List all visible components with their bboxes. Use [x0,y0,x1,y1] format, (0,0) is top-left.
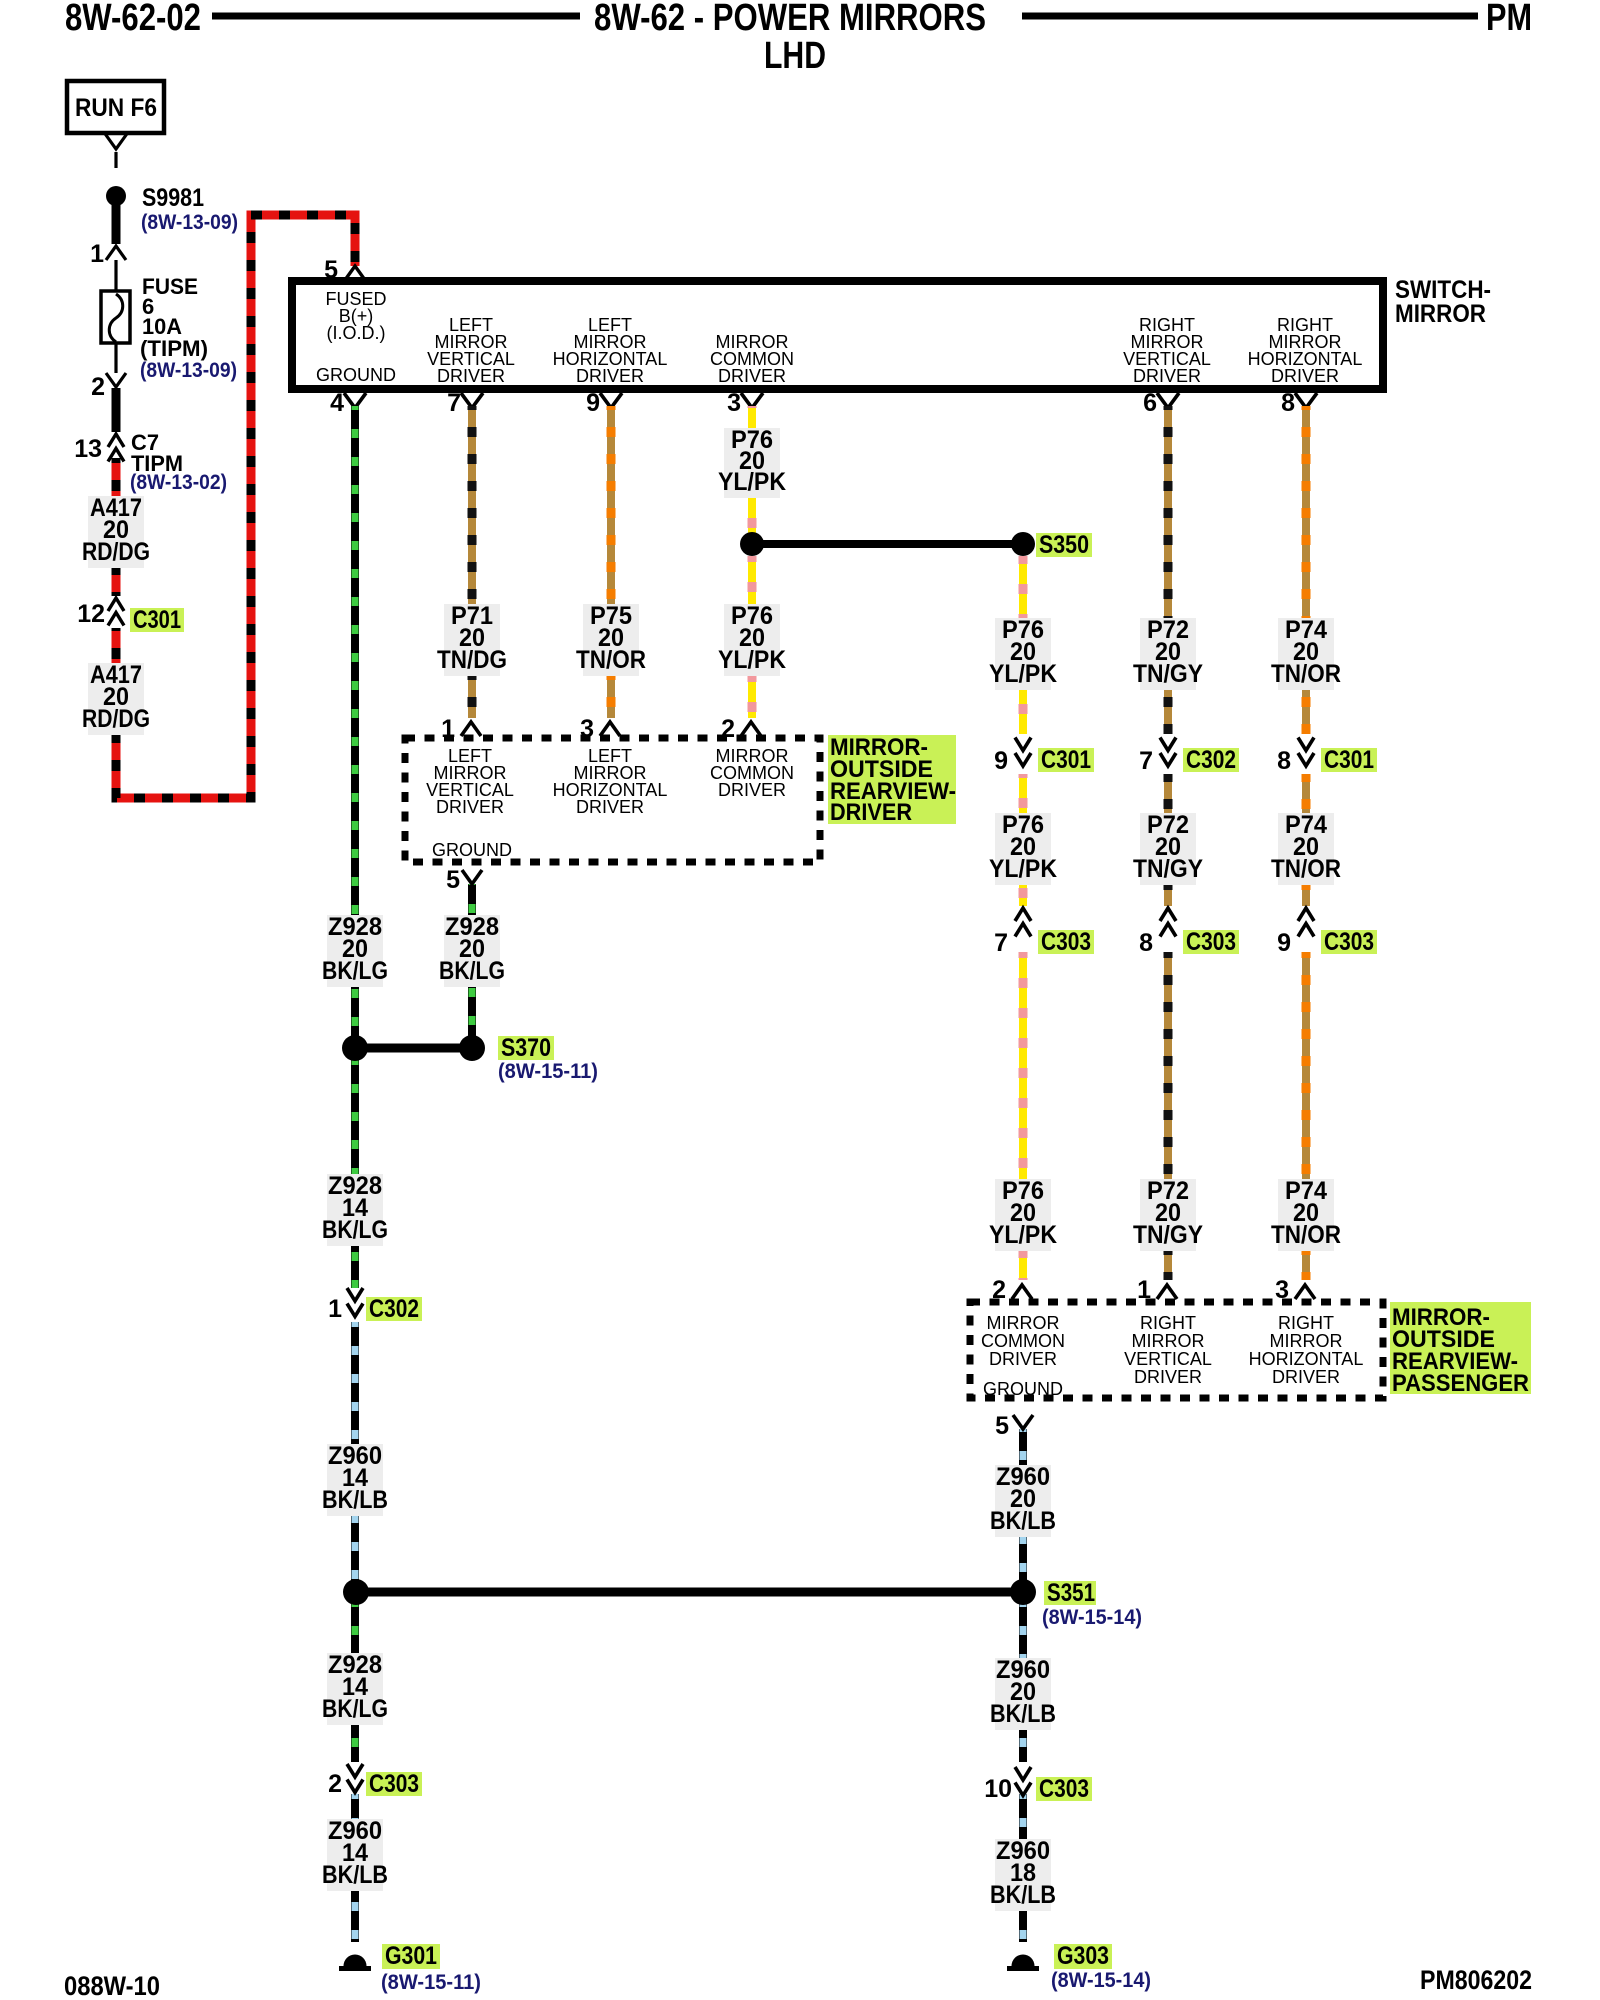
svg-text:C301: C301 [1041,746,1091,774]
svg-text:5: 5 [324,256,338,284]
svg-text:MIRROR: MIRROR [1395,300,1486,328]
svg-text:3: 3 [580,715,594,743]
svg-text:MIRROR: MIRROR [1270,1331,1343,1351]
svg-text:9: 9 [994,747,1008,775]
svg-text:BK/LG: BK/LG [439,957,505,985]
svg-text:9: 9 [586,389,600,417]
svg-text:RD/DG: RD/DG [82,538,150,566]
svg-text:BK/LG: BK/LG [322,1216,388,1244]
svg-text:2: 2 [721,715,735,743]
svg-text:DRIVER: DRIVER [718,780,786,800]
svg-text:DRIVER: DRIVER [989,1349,1057,1369]
svg-text:C301: C301 [1324,746,1374,774]
svg-text:YL/PK: YL/PK [718,468,786,496]
svg-text:(8W-15-14): (8W-15-14) [1042,1606,1142,1629]
svg-text:8W-62-02: 8W-62-02 [65,0,201,39]
svg-text:DRIVER: DRIVER [576,366,644,386]
svg-text:PM806202: PM806202 [1420,1965,1532,1995]
svg-text:8W-62 - POWER MIRRORS: 8W-62 - POWER MIRRORS [594,0,986,39]
svg-text:TN/GY: TN/GY [1133,855,1203,883]
svg-text:VERTICAL: VERTICAL [1124,1349,1212,1369]
svg-text:GROUND: GROUND [432,840,512,860]
svg-text:2: 2 [91,373,105,401]
svg-text:DRIVER: DRIVER [718,366,786,386]
svg-text:COMMON: COMMON [981,1331,1065,1351]
svg-text:1: 1 [1137,1276,1151,1304]
svg-text:RIGHT: RIGHT [1278,1313,1334,1333]
svg-text:7: 7 [447,389,461,417]
svg-text:BK/LB: BK/LB [990,1700,1056,1728]
svg-text:13: 13 [74,435,102,463]
svg-text:8: 8 [1139,929,1153,957]
svg-text:C303: C303 [1324,928,1374,956]
svg-text:DRIVER: DRIVER [1271,366,1339,386]
svg-text:088W-10: 088W-10 [64,1971,160,2000]
svg-text:1: 1 [90,240,104,268]
svg-text:G301: G301 [385,1942,437,1970]
svg-text:YL/PK: YL/PK [989,1221,1057,1249]
svg-text:3: 3 [1275,1276,1289,1304]
svg-text:(8W-13-09): (8W-13-09) [141,211,238,234]
svg-text:DRIVER: DRIVER [1272,1367,1340,1387]
svg-text:S370: S370 [501,1034,551,1062]
svg-text:MIRROR: MIRROR [987,1313,1060,1333]
svg-text:TN/OR: TN/OR [576,646,646,674]
svg-text:(8W-15-11): (8W-15-11) [498,1060,598,1083]
svg-text:BK/LB: BK/LB [990,1507,1056,1535]
svg-text:3: 3 [727,389,741,417]
svg-text:DRIVER: DRIVER [436,797,504,817]
svg-text:YL/PK: YL/PK [989,660,1057,688]
svg-text:DRIVER: DRIVER [1134,1367,1202,1387]
svg-text:RUN F6: RUN F6 [75,94,157,122]
svg-text:HORIZONTAL: HORIZONTAL [1249,1349,1364,1369]
svg-text:(8W-15-14): (8W-15-14) [1051,1969,1151,1992]
svg-text:BK/LB: BK/LB [322,1486,388,1514]
svg-text:7: 7 [994,929,1008,957]
svg-text:DRIVER: DRIVER [830,799,912,826]
svg-text:C302: C302 [369,1295,419,1323]
svg-text:BK/LG: BK/LG [322,957,388,985]
svg-text:BK/LG: BK/LG [322,1695,388,1723]
svg-text:PM: PM [1486,0,1532,39]
svg-text:DRIVER: DRIVER [576,797,644,817]
svg-text:(I.O.D.): (I.O.D.) [327,323,386,343]
svg-text:YL/PK: YL/PK [718,646,786,674]
svg-text:(8W-13-02): (8W-13-02) [130,471,227,494]
svg-text:10: 10 [984,1775,1012,1803]
svg-text:TN/OR: TN/OR [1271,1221,1341,1249]
svg-text:LHD: LHD [764,35,826,77]
svg-text:RIGHT: RIGHT [1140,1313,1196,1333]
svg-text:TN/DG: TN/DG [437,646,507,674]
svg-text:S351: S351 [1047,1579,1095,1607]
svg-text:TN/GY: TN/GY [1133,1221,1203,1249]
svg-text:6: 6 [1143,389,1157,417]
svg-text:5: 5 [995,1412,1009,1440]
svg-text:BK/LB: BK/LB [990,1881,1056,1909]
svg-text:(8W-15-11): (8W-15-11) [381,1971,481,1994]
svg-text:C303: C303 [1041,928,1091,956]
svg-text:GROUND: GROUND [983,1379,1063,1399]
svg-text:5: 5 [446,866,460,894]
svg-text:7: 7 [1139,747,1153,775]
svg-text:TN/GY: TN/GY [1133,660,1203,688]
svg-text:YL/PK: YL/PK [989,855,1057,883]
svg-text:8: 8 [1281,389,1295,417]
svg-text:PASSENGER: PASSENGER [1392,1370,1529,1397]
svg-text:1: 1 [441,715,455,743]
svg-text:4: 4 [330,389,344,417]
svg-text:TN/OR: TN/OR [1271,660,1341,688]
svg-text:GROUND: GROUND [316,365,396,385]
svg-text:2: 2 [992,1276,1006,1304]
svg-text:C302: C302 [1186,746,1236,774]
svg-text:C303: C303 [369,1770,419,1798]
svg-text:DRIVER: DRIVER [1133,366,1201,386]
svg-text:C301: C301 [133,606,181,634]
svg-text:12: 12 [77,600,105,628]
svg-text:RD/DG: RD/DG [82,705,150,733]
svg-text:DRIVER: DRIVER [437,366,505,386]
svg-text:C303: C303 [1039,1775,1089,1803]
svg-text:G303: G303 [1057,1942,1109,1970]
svg-text:9: 9 [1277,929,1291,957]
svg-text:(TIPM): (TIPM) [140,336,208,361]
svg-text:(8W-13-09): (8W-13-09) [140,359,237,382]
svg-text:MIRROR: MIRROR [1132,1331,1205,1351]
svg-text:C303: C303 [1186,928,1236,956]
svg-text:TN/OR: TN/OR [1271,855,1341,883]
svg-text:BK/LB: BK/LB [322,1861,388,1889]
svg-text:1: 1 [328,1295,342,1323]
svg-text:2: 2 [328,1770,342,1798]
svg-text:S350: S350 [1039,531,1089,559]
svg-text:8: 8 [1277,747,1291,775]
svg-text:S9981: S9981 [142,184,204,212]
